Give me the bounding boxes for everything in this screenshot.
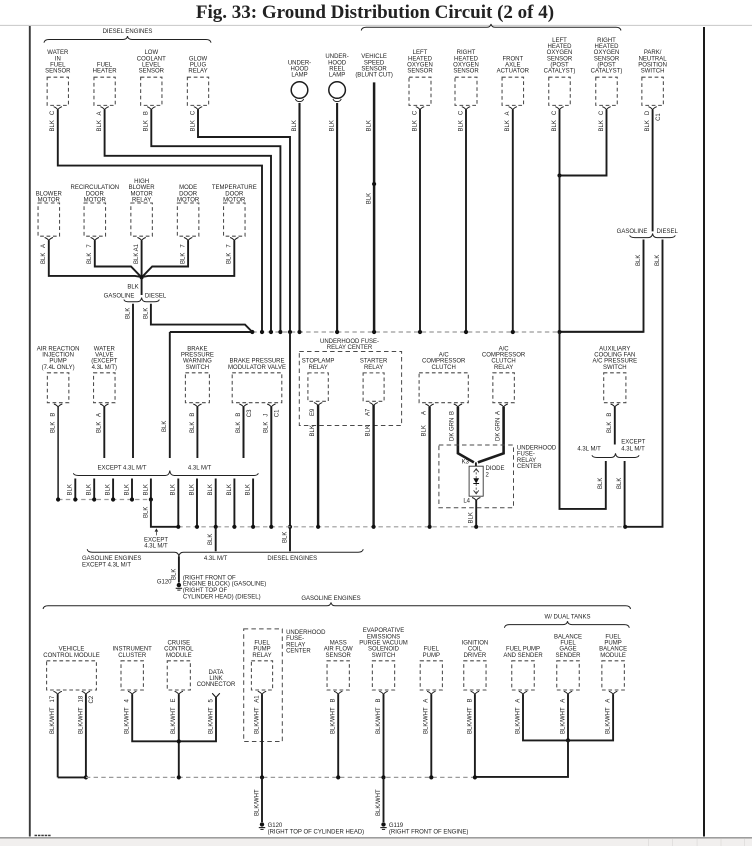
svg-text:BLK: BLK (125, 308, 131, 319)
svg-text:DK GRN: DK GRN (450, 418, 456, 441)
svg-text:BRAKE PRESSURE: BRAKE PRESSURE (229, 359, 284, 365)
svg-text:BLK: BLK (127, 284, 138, 290)
svg-text:DOOR: DOOR (179, 191, 198, 197)
svg-text:LAMP: LAMP (329, 73, 345, 79)
svg-text:GLOW: GLOW (189, 56, 208, 62)
svg-text:PUMP: PUMP (253, 647, 270, 653)
svg-text:CLUTCH: CLUTCH (432, 365, 456, 371)
svg-text:FUEL PUMP: FUEL PUMP (506, 647, 540, 653)
svg-text:BLK/WHT A: BLK/WHT A (560, 699, 566, 734)
svg-text:BLK/WHT B: BLK/WHT B (467, 698, 473, 734)
svg-text:BLK: BLK (469, 512, 475, 523)
svg-text:HOOD: HOOD (328, 60, 347, 66)
svg-text:(RIGHT TOP OF CYLINDER HEAD): (RIGHT TOP OF CYLINDER HEAD) (268, 830, 365, 836)
svg-text:FUEL: FUEL (97, 62, 113, 68)
svg-text:(RIGHT FRONT OF: (RIGHT FRONT OF (183, 575, 236, 581)
svg-text:HEATED: HEATED (408, 56, 433, 62)
svg-text:G120: G120 (268, 823, 283, 829)
svg-text:OXYGEN: OXYGEN (453, 62, 479, 68)
svg-text:CONTROL: CONTROL (164, 647, 194, 653)
svg-text:PLUG: PLUG (190, 62, 207, 68)
svg-text:BLK: BLK (366, 120, 372, 131)
svg-text:FUSE-: FUSE- (286, 636, 304, 642)
svg-text:BLK: BLK (189, 484, 195, 495)
svg-text:BLK: BLK (617, 478, 623, 489)
svg-text:BLK/WHT 4: BLK/WHT 4 (125, 698, 131, 734)
svg-text:SENSOR: SENSOR (594, 56, 620, 62)
svg-text:BLK: BLK (365, 425, 371, 436)
svg-text:INJECTION: INJECTION (42, 353, 74, 359)
svg-text:FUEL: FUEL (605, 634, 621, 640)
svg-text:WATER: WATER (47, 50, 69, 56)
svg-text:C1: C1 (275, 409, 281, 417)
svg-text:COOLANT: COOLANT (137, 56, 166, 62)
svg-text:BLK 7: BLK 7 (87, 244, 93, 264)
svg-text:BLK: BLK (636, 255, 642, 266)
svg-text:RELAY CENTER: RELAY CENTER (327, 345, 373, 351)
svg-text:Fig. 33: Ground Distribution C: Fig. 33: Ground Distribution Circuit (2 … (196, 2, 554, 23)
svg-text:BLK: BLK (171, 569, 177, 580)
svg-text:BLK/WHT E: BLK/WHT E (171, 698, 177, 734)
svg-text:DIODE: DIODE (486, 466, 505, 472)
svg-text:BLK C: BLK C (552, 110, 558, 131)
svg-text:SENSOR: SENSOR (326, 653, 352, 659)
svg-text:DIESEL ENGINES: DIESEL ENGINES (103, 29, 153, 35)
svg-text:GASOLINE ENGINES: GASOLINE ENGINES (82, 556, 141, 562)
svg-text:FUEL: FUEL (424, 647, 440, 653)
svg-text:B: B (450, 411, 456, 415)
svg-text:BLK: BLK (655, 255, 661, 266)
svg-text:BLK: BLK (208, 484, 214, 495)
svg-text:(BLUNT CUT): (BLUNT CUT) (355, 73, 393, 79)
svg-text:BLK: BLK (143, 507, 149, 518)
svg-text:HEATER: HEATER (93, 69, 118, 75)
svg-text:MODE: MODE (179, 185, 197, 191)
svg-text:BLK/WHT A: BLK/WHT A (606, 699, 612, 734)
svg-text:DIESEL ENGINES: DIESEL ENGINES (267, 556, 317, 562)
svg-text:BLK B: BLK B (51, 413, 57, 433)
svg-text:AXLE: AXLE (505, 62, 520, 68)
svg-text:BLK A: BLK A (505, 111, 511, 131)
svg-text:RELAY: RELAY (517, 458, 536, 464)
svg-text:SENDER: SENDER (555, 653, 581, 659)
svg-text:BRAKE: BRAKE (187, 346, 207, 352)
svg-text:A/C: A/C (439, 353, 450, 359)
svg-text:BLK: BLK (143, 484, 149, 495)
svg-text:INSTRUMENT: INSTRUMENT (113, 647, 153, 653)
svg-text:BLK: BLK (124, 484, 130, 495)
svg-text:EXCEPT: EXCEPT (621, 440, 645, 446)
svg-text:MASS: MASS (330, 641, 347, 647)
svg-text:BLK: BLK (330, 120, 336, 131)
svg-text:CENTER: CENTER (517, 464, 542, 470)
svg-text:MODULATOR VALVE: MODULATOR VALVE (228, 365, 286, 371)
svg-text:RELAY: RELAY (132, 197, 151, 203)
svg-text:BLK C: BLK C (458, 110, 464, 131)
svg-text:PRESSURE: PRESSURE (181, 353, 214, 359)
svg-text:EMISSIONS: EMISSIONS (367, 634, 400, 640)
svg-text:VALVE: VALVE (95, 353, 113, 359)
svg-text:POSITION: POSITION (638, 62, 667, 68)
svg-text:EXCEPT 4.3L M/T: EXCEPT 4.3L M/T (82, 563, 131, 569)
svg-text:DIESEL: DIESEL (657, 229, 679, 235)
svg-text:SWITCH: SWITCH (641, 69, 665, 75)
svg-text:AIR REACTION: AIR REACTION (37, 346, 80, 352)
svg-text:LEFT: LEFT (413, 50, 428, 56)
svg-text:UNDER-: UNDER- (325, 54, 348, 60)
svg-text:LEVEL: LEVEL (142, 62, 161, 68)
svg-text:UNDER-: UNDER- (288, 60, 311, 66)
svg-text:EXCEPT 4.3L M/T: EXCEPT 4.3L M/T (97, 465, 146, 471)
svg-text:BALANCE: BALANCE (554, 634, 582, 640)
svg-text:GASOLINE: GASOLINE (617, 229, 648, 235)
svg-text:BLK/WHT A1: BLK/WHT A1 (254, 695, 260, 734)
svg-text:BLK: BLK (246, 484, 252, 495)
svg-text:RELAY: RELAY (494, 365, 513, 371)
svg-text:CENTER: CENTER (286, 649, 311, 655)
svg-text:SWITCH: SWITCH (186, 365, 210, 371)
svg-text:A: A (495, 411, 501, 415)
svg-text:MOTOR: MOTOR (130, 191, 153, 197)
svg-text:BLK: BLK (598, 478, 604, 489)
svg-text:FUEL: FUEL (50, 62, 66, 68)
svg-text:G119: G119 (389, 823, 404, 829)
svg-text:BLK: BLK (171, 484, 177, 495)
svg-text:SOLENOID: SOLENOID (368, 647, 400, 653)
svg-text:CRUISE: CRUISE (167, 641, 190, 647)
svg-text:BLK A: BLK A (97, 413, 103, 433)
svg-text:RECIRCULATION: RECIRCULATION (71, 185, 120, 191)
svg-text:LINK: LINK (209, 676, 222, 682)
svg-text:BLK A: BLK A (41, 244, 47, 264)
svg-text:LAMP: LAMP (291, 73, 307, 79)
svg-text:OXYGEN: OXYGEN (407, 62, 433, 68)
svg-text:CYLINDER HEAD) (DIESEL): CYLINDER HEAD) (DIESEL) (183, 594, 261, 600)
svg-text:BLOWER: BLOWER (129, 185, 156, 191)
svg-text:C1: C1 (656, 113, 662, 121)
svg-text:BLK 7: BLK 7 (181, 244, 187, 264)
svg-text:K3: K3 (462, 459, 470, 465)
svg-text:SPEED: SPEED (364, 60, 385, 66)
svg-text:BLK: BLK (208, 534, 214, 545)
svg-text:UNDERHOOD: UNDERHOOD (286, 630, 326, 636)
svg-text:BLK B: BLK B (144, 111, 150, 131)
svg-text:COIL: COIL (468, 647, 483, 653)
svg-text:COOLING FAN: COOLING FAN (594, 353, 635, 359)
svg-text:PUMP: PUMP (49, 359, 66, 365)
svg-text:C2: C2 (89, 695, 95, 703)
svg-text:CLUSTER: CLUSTER (118, 653, 147, 659)
svg-text:L4: L4 (463, 499, 470, 505)
svg-text:CATALYST): CATALYST) (544, 69, 576, 75)
svg-text:4.3L M/T: 4.3L M/T (621, 447, 645, 453)
svg-text:DIESEL: DIESEL (145, 294, 167, 300)
svg-text:FRONT: FRONT (502, 56, 523, 62)
svg-text:EVAPORATIVE: EVAPORATIVE (363, 628, 404, 634)
svg-text:4.3L M/T: 4.3L M/T (188, 465, 212, 471)
svg-text:BLK B: BLK B (236, 413, 242, 433)
svg-text:PURGE VACUUM: PURGE VACUUM (359, 641, 408, 647)
svg-text:CONNECTOR: CONNECTOR (197, 682, 236, 688)
svg-text:FUEL: FUEL (254, 641, 270, 647)
svg-text:BLK/WHT 5: BLK/WHT 5 (208, 698, 214, 734)
svg-text:DOOR: DOOR (225, 191, 244, 197)
svg-text:FUSE-: FUSE- (517, 452, 535, 458)
svg-text:OXYGEN: OXYGEN (594, 50, 620, 56)
svg-text:IN: IN (55, 56, 61, 62)
svg-text:FUEL: FUEL (560, 641, 576, 647)
svg-text:CLUTCH: CLUTCH (491, 359, 515, 365)
svg-text:4.3L M/T: 4.3L M/T (204, 556, 228, 562)
svg-text:REEL: REEL (329, 66, 345, 72)
svg-text:C3: C3 (247, 409, 253, 417)
svg-text:NEUTRAL: NEUTRAL (639, 56, 668, 62)
svg-text:HEATED: HEATED (548, 44, 573, 50)
svg-text:BLK: BLK (106, 484, 112, 495)
svg-text:BLK B: BLK B (607, 413, 613, 433)
svg-text:CATALYST): CATALYST) (591, 69, 623, 75)
svg-text:SENSOR: SENSOR (139, 69, 165, 75)
svg-text:MODULE: MODULE (166, 653, 192, 659)
svg-text:STARTER: STARTER (360, 359, 388, 365)
svg-text:SENSOR: SENSOR (45, 69, 71, 75)
svg-text:PUMP: PUMP (604, 641, 621, 647)
svg-text:PARK/: PARK/ (644, 50, 662, 56)
svg-text:A: A (421, 411, 427, 415)
svg-text:BLK/WHT: BLK/WHT (254, 789, 260, 816)
svg-text:RELAY: RELAY (364, 365, 383, 371)
svg-text:BLK/WHT B: BLK/WHT B (376, 698, 382, 734)
svg-text:SENSOR: SENSOR (361, 66, 387, 72)
svg-text:AUXILIARY: AUXILIARY (599, 346, 630, 352)
svg-text:SENSOR: SENSOR (547, 56, 573, 62)
svg-text:VEHICLE: VEHICLE (59, 647, 85, 653)
svg-text:BLK: BLK (367, 193, 373, 204)
svg-text:BLK 7: BLK 7 (227, 244, 233, 264)
svg-text:A/C PRESSURE: A/C PRESSURE (592, 359, 637, 365)
svg-text:COMPRESSOR: COMPRESSOR (422, 359, 466, 365)
svg-text:CONTROL MODULE: CONTROL MODULE (43, 653, 99, 659)
svg-text:LOW: LOW (144, 50, 158, 56)
svg-text:BLOWER: BLOWER (36, 191, 63, 197)
svg-text:RIGHT: RIGHT (457, 50, 476, 56)
svg-text:BLK C: BLK C (190, 110, 196, 131)
svg-text:SENSOR: SENSOR (407, 69, 433, 75)
svg-text:BLK A: BLK A (97, 111, 103, 131)
svg-text:(POST: (POST (597, 62, 616, 68)
svg-text:BLK A1: BLK A1 (134, 243, 140, 264)
svg-text:IGNITION: IGNITION (462, 641, 489, 647)
svg-text:SENSOR: SENSOR (453, 69, 479, 75)
svg-text:UNDERHOOD FUSE-: UNDERHOOD FUSE- (320, 339, 379, 345)
svg-text:BLK C: BLK C (412, 110, 418, 131)
svg-text:W/ DUAL TANKS: W/ DUAL TANKS (545, 615, 591, 621)
svg-text:BALANCE: BALANCE (599, 647, 627, 653)
svg-text:BLK C: BLK C (50, 110, 56, 131)
svg-text:A/C: A/C (499, 346, 510, 352)
svg-text:BLK/WHT B: BLK/WHT B (331, 698, 337, 734)
svg-text:BLK/WHT: BLK/WHT (376, 789, 382, 816)
svg-text:HEATED: HEATED (595, 44, 620, 50)
svg-text:DK GRN: DK GRN (495, 418, 501, 441)
svg-text:BLK: BLK (162, 421, 168, 432)
svg-text:HOOD: HOOD (291, 66, 310, 72)
svg-text:(EXCEPT: (EXCEPT (91, 359, 117, 365)
svg-text:GAGE: GAGE (559, 647, 576, 653)
svg-text:STOPLAMP: STOPLAMP (302, 359, 335, 365)
svg-text:DRIVER: DRIVER (464, 653, 487, 659)
svg-text:(RIGHT TOP OF: (RIGHT TOP OF (183, 588, 228, 594)
svg-text:(POST: (POST (550, 62, 569, 68)
svg-text:DATA: DATA (208, 670, 223, 676)
svg-text:BLK C: BLK C (599, 110, 605, 131)
svg-text:BLK: BLK (421, 425, 427, 436)
svg-text:(RIGHT FRONT OF ENGINE): (RIGHT FRONT OF ENGINE) (389, 830, 468, 836)
svg-text:RELAY: RELAY (252, 653, 271, 659)
svg-text:DOOR: DOOR (86, 191, 105, 197)
svg-text:BLK/WHT A: BLK/WHT A (515, 699, 521, 734)
svg-text:SWITCH: SWITCH (603, 365, 627, 371)
svg-text:GASOLINE: GASOLINE (104, 294, 135, 300)
svg-text:VEHICLE: VEHICLE (361, 54, 387, 60)
svg-text:ACTUATOR: ACTUATOR (497, 69, 530, 75)
svg-text:EXCEPT: EXCEPT (144, 537, 168, 543)
svg-text:BLK D: BLK D (645, 110, 651, 131)
svg-text:(7.4L ONLY): (7.4L ONLY) (42, 365, 75, 371)
svg-text:BLK: BLK (87, 484, 93, 495)
svg-text:GASOLINE ENGINES: GASOLINE ENGINES (301, 596, 360, 602)
svg-text:BLK/WHT A: BLK/WHT A (424, 699, 430, 734)
svg-text:AIR FLOW: AIR FLOW (324, 647, 353, 653)
svg-text:MODULE: MODULE (600, 653, 626, 659)
svg-text:SWITCH: SWITCH (372, 653, 396, 659)
svg-text:PUMP: PUMP (423, 653, 440, 659)
svg-text:BLK J: BLK J (264, 414, 270, 433)
svg-text:4.3L M/T): 4.3L M/T) (92, 365, 117, 371)
svg-text:TEMPERATURE: TEMPERATURE (212, 185, 257, 191)
svg-text:COMPRESSOR: COMPRESSOR (482, 353, 526, 359)
svg-text:BLK: BLK (282, 532, 288, 543)
svg-text:HEATED: HEATED (454, 56, 479, 62)
svg-text:A7: A7 (365, 408, 371, 416)
svg-text:BLK: BLK (292, 120, 298, 131)
svg-text:OXYGEN: OXYGEN (547, 50, 573, 56)
svg-text:RELAY: RELAY (286, 642, 305, 648)
svg-text:HIGH: HIGH (134, 179, 149, 185)
svg-text:BLK/WHT 18: BLK/WHT 18 (78, 695, 84, 734)
svg-text:AND SENDER: AND SENDER (503, 653, 543, 659)
svg-text:WATER: WATER (94, 346, 116, 352)
svg-text:BLK/WHT 17: BLK/WHT 17 (50, 695, 56, 734)
svg-text:G120: G120 (157, 580, 172, 586)
svg-text:ENGINE BLOCK) (GASOLINE): ENGINE BLOCK) (GASOLINE) (183, 582, 266, 588)
svg-text:RIGHT: RIGHT (597, 38, 616, 44)
svg-text:4.3L M/T: 4.3L M/T (144, 544, 168, 550)
svg-text:RELAY: RELAY (308, 365, 327, 371)
svg-text:WARNING: WARNING (183, 359, 212, 365)
svg-text:4.3L M/T: 4.3L M/T (577, 447, 601, 453)
svg-text:BLK: BLK (227, 484, 233, 495)
svg-text:RELAY: RELAY (188, 69, 207, 75)
svg-text:BLK: BLK (68, 484, 74, 495)
svg-text:BLK: BLK (143, 308, 149, 319)
svg-text:UNDERHOOD: UNDERHOOD (517, 445, 557, 451)
svg-text:E9: E9 (310, 408, 316, 416)
svg-text:BLK: BLK (310, 425, 316, 436)
svg-text:BLK B: BLK B (190, 413, 196, 433)
svg-text:LEFT: LEFT (552, 38, 567, 44)
